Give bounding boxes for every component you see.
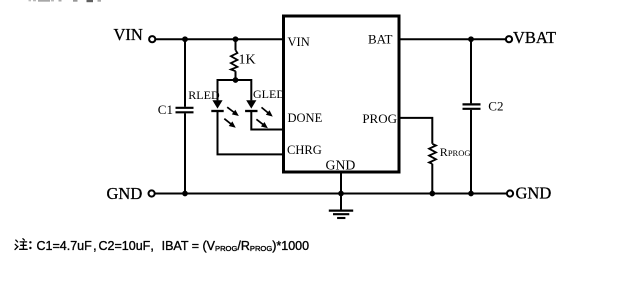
- svg-text:GND: GND: [516, 184, 552, 203]
- cropped header text remnant: [29, 0, 102, 2]
- wire RLED anode: [217, 79, 219, 100]
- terminal GND left: [149, 190, 155, 196]
- RLED emission arrows: [222, 105, 240, 130]
- junction BAT/C2: [468, 36, 474, 42]
- wire R1 bottom: [235, 71, 237, 80]
- ground symbol: [329, 211, 353, 218]
- resistor R1: [231, 50, 238, 71]
- wire C2 top: [470, 39, 472, 103]
- svg-text:DONE: DONE: [288, 111, 323, 125]
- capacitor C2: [463, 104, 481, 108]
- capacitor C1: [176, 108, 194, 113]
- wire R1 top: [235, 39, 237, 50]
- junction VIN/C1: [182, 36, 188, 42]
- resistor RPROG: [429, 144, 436, 164]
- note fullwidth colon (drawn): [29, 241, 31, 249]
- junction rail/C2: [468, 191, 474, 197]
- svg-text:BAT: BAT: [368, 32, 393, 47]
- wire C2 bottom: [470, 110, 472, 194]
- wire GLED anode: [250, 79, 252, 100]
- LED GLED: [245, 100, 257, 111]
- svg-text:VBAT: VBAT: [513, 28, 556, 47]
- svg-text:VIN: VIN: [288, 35, 310, 49]
- wire BAT to VBAT: [401, 38, 507, 40]
- wire C1 top: [184, 39, 186, 107]
- junction LED branch: [233, 77, 239, 83]
- svg-text:PROG: PROG: [362, 111, 397, 126]
- wire C1 to GND rail: [184, 113, 186, 193]
- svg-text:RLED: RLED: [188, 88, 220, 102]
- svg-text:C1: C1: [158, 102, 173, 117]
- wire PROG to RPROG: [401, 118, 433, 144]
- terminal GND right: [507, 190, 513, 196]
- svg-text:GND: GND: [107, 184, 143, 203]
- terminal VBAT: [506, 36, 512, 42]
- svg-text:GLED: GLED: [253, 87, 285, 101]
- svg-text:C2: C2: [488, 98, 503, 113]
- wire U1 GND pin to ground: [340, 174, 342, 211]
- GND rail: [155, 193, 507, 195]
- svg-text:1K: 1K: [239, 52, 256, 67]
- svg-text:VIN: VIN: [114, 25, 143, 44]
- junction rail/U1 GND: [338, 191, 344, 197]
- svg-text:GND: GND: [326, 157, 356, 172]
- svg-text:RPROG: RPROG: [440, 145, 471, 159]
- wire VIN to U1: [156, 38, 284, 40]
- IC U1: [284, 16, 400, 172]
- wire GLED cathode to DONE: [251, 112, 283, 130]
- junction rail/RPROG: [429, 191, 435, 197]
- LED RLED: [211, 100, 223, 111]
- wire RLED cathode to CHRG: [218, 112, 284, 154]
- junction VIN/R1: [233, 36, 239, 42]
- note hanzi 注 (drawn): [15, 239, 27, 250]
- wire RPROG to GND rail: [431, 164, 433, 194]
- GLED emission arrows: [255, 105, 275, 130]
- wire LED branch bar: [218, 79, 252, 81]
- svg-text:CHRG: CHRG: [287, 143, 322, 157]
- junction rail/C1: [182, 191, 188, 197]
- terminal VIN: [149, 36, 155, 42]
